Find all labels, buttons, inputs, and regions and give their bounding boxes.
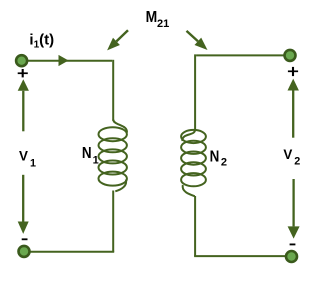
inductor coil N1: [99, 120, 127, 192]
terminal: top-left: [16, 55, 27, 66]
V2 arrow down: [292, 179, 294, 226]
wire: left circuit bottom segment: [30, 251, 114, 253]
terminal: bottom-left: [19, 246, 30, 257]
svg-text:21: 21: [157, 18, 169, 30]
M21 pointer arrow right: [187, 31, 198, 41]
current direction arrowhead i1: [59, 55, 69, 66]
V1 arrow down: [22, 175, 24, 222]
polarity minus sign (V1): [22, 238, 28, 240]
wire: left circuit right column (bottom part): [112, 191, 114, 252]
svg-text:M: M: [146, 9, 158, 26]
svg-text:1: 1: [30, 157, 36, 169]
svg-text:V: V: [19, 149, 28, 164]
V1 arrow up: [22, 91, 24, 132]
svg-text:N: N: [210, 148, 220, 165]
svg-text:2: 2: [221, 156, 227, 168]
terminal: bottom-right: [286, 251, 297, 262]
terminal: top-right: [285, 50, 296, 61]
polarity plus sign (V2): [288, 67, 298, 76]
svg-text:2: 2: [294, 156, 300, 168]
wire: left circuit right column (top part): [112, 60, 114, 121]
wire: left circuit top segment: [28, 60, 113, 62]
V2 arrow up: [292, 91, 294, 138]
svg-text:i1(t): i1(t): [29, 31, 54, 50]
wire: right circuit left column (bottom part): [194, 196, 196, 256]
wire: right circuit top segment: [196, 54, 284, 56]
svg-text:N: N: [82, 145, 92, 162]
svg-text:1: 1: [93, 154, 99, 166]
polarity plus sign (V1): [18, 69, 28, 77]
polarity minus sign (V2): [290, 244, 296, 246]
inductor coil N2: [181, 130, 206, 196]
M21 pointer arrow left: [116, 30, 128, 41]
svg-text:V: V: [283, 147, 292, 162]
wire: right circuit bottom segment: [194, 255, 285, 257]
wire: right circuit left column (top part): [194, 54, 196, 130]
